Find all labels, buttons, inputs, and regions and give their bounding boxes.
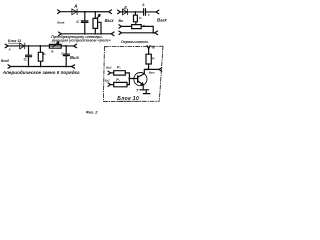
svg-text:С: С <box>76 19 79 24</box>
svg-text:Вых: Вых <box>157 18 167 23</box>
svg-text:С: С <box>148 13 150 17</box>
svg-text:Вход: Вход <box>1 59 9 63</box>
input arrow Вх1 <box>108 71 111 74</box>
wire row1 to merge bend <box>141 26 153 32</box>
svg-text:Д: Д <box>123 5 127 9</box>
svg-text:Апериодическое звено II порядк: Апериодическое звено II порядка <box>2 70 80 75</box>
svg-text:А: А <box>8 47 11 51</box>
output arrow of merge <box>155 31 158 35</box>
tap wire from П to bottom rail <box>98 22 101 34</box>
svg-text:Фиг. 2: Фиг. 2 <box>86 110 99 115</box>
wire to Р1 <box>111 72 114 74</box>
capacitor C <box>81 12 88 34</box>
svg-text:рующим устройством «реле»: рующим устройством «реле» <box>51 39 111 43</box>
output wire <box>149 68 159 70</box>
transistor Т circle <box>134 73 147 86</box>
underline of Блок 13 <box>8 42 20 44</box>
output terminal arrow <box>159 68 162 71</box>
node after diode <box>135 11 137 13</box>
node base <box>128 78 130 80</box>
resistor Р1 vertical <box>134 12 138 25</box>
node: resistor top junction <box>94 11 96 13</box>
resistor Р3 <box>146 54 151 69</box>
input terminal arrow (Вх) <box>118 10 121 14</box>
underline of Блок 10 <box>117 100 141 102</box>
output terminal arrow <box>156 10 159 14</box>
potentiometer П1 wiper arrow <box>53 42 59 47</box>
base wire <box>129 78 137 80</box>
wire diode to series capacitor <box>127 11 143 13</box>
svg-text:Вых: Вых <box>149 71 155 75</box>
dashed box border <box>103 46 163 101</box>
svg-text:Р₃: Р₃ <box>152 56 156 60</box>
svg-text:Т: Т <box>136 88 139 92</box>
bottom rail output arrow <box>72 65 75 68</box>
bottom rail input arrow <box>8 65 11 68</box>
bottom rail output arrow <box>111 32 114 36</box>
node C2 top <box>65 45 67 47</box>
capacitor С2 <box>63 46 69 67</box>
bottom rail input arrow <box>59 32 62 36</box>
svg-text:Вых: Вых <box>70 55 80 60</box>
svg-text:Р₁: Р₁ <box>139 16 142 20</box>
svg-text:Вх2: Вх2 <box>105 79 110 83</box>
capacitor С1 <box>26 46 32 67</box>
wire input to diode D <box>60 11 77 13</box>
node Р2 bottom <box>40 66 42 68</box>
svg-text:Блок 13: Блок 13 <box>8 39 21 43</box>
node C1 bottom <box>28 66 30 68</box>
wire diode to output <box>77 11 109 13</box>
diode D <box>72 9 77 15</box>
diode Д <box>122 9 127 15</box>
bottom rail wire <box>11 66 72 68</box>
input arrow row 2 <box>119 31 122 34</box>
wire capacitor to output <box>146 11 156 13</box>
svg-text:Д: Д <box>74 4 78 8</box>
wire row2 <box>122 32 155 34</box>
svg-text:Вх: Вх <box>118 19 124 23</box>
+E supply arrow <box>147 46 150 55</box>
svg-text:С₁: С₁ <box>24 58 29 62</box>
potentiometer П1 box <box>49 44 61 48</box>
output terminal arrow (Вых) <box>109 10 112 14</box>
bottom rail wire <box>61 33 111 35</box>
wire Р1 to base node <box>125 73 129 79</box>
svg-text:Д₁: Д₁ <box>141 3 145 6</box>
svg-text:П₁: П₁ <box>51 50 54 54</box>
collector node wire <box>145 68 149 70</box>
svg-text:Вых: Вых <box>105 18 115 23</box>
emitter wire down <box>142 85 144 90</box>
input arrow Вх2 <box>108 83 111 86</box>
wire diode to output <box>25 45 74 47</box>
node C2 bottom <box>65 66 67 68</box>
wiper arrow of П <box>97 15 100 19</box>
wire Р2 to base node <box>127 79 129 85</box>
variable resistor П (vertical box with arrow) <box>93 12 98 34</box>
resistor Р2 vertical <box>38 46 43 67</box>
node: resistor bottom junction <box>95 33 97 35</box>
svg-text:Вх1: Вх1 <box>106 66 112 70</box>
input terminal arrow (Вход) <box>58 10 61 14</box>
node collector <box>146 68 148 70</box>
transistor emitter with arrow <box>138 81 144 85</box>
node merge <box>152 32 154 34</box>
wire row1 to resistor Р2 <box>122 25 132 27</box>
series capacitor plates <box>144 9 146 16</box>
svg-text:Р₁: Р₁ <box>117 66 121 70</box>
node: tap on rail <box>100 33 102 35</box>
svg-text:Вход: Вход <box>57 20 64 24</box>
node: cap C bottom junction <box>84 33 86 35</box>
node: cap C top junction <box>84 11 86 13</box>
transistor base bar <box>137 76 139 82</box>
transistor collector <box>138 69 145 77</box>
ground <box>140 90 150 94</box>
wire input to diode <box>120 11 127 13</box>
svg-text:Р₂: Р₂ <box>43 52 46 56</box>
resistor Р2 horizontal box <box>132 25 142 29</box>
output terminal arrow <box>74 44 77 48</box>
svg-text:С₂: С₂ <box>61 52 64 56</box>
node Р2 top <box>40 45 42 47</box>
resistor Р2 horizontal <box>114 82 127 86</box>
resistor Р1 horizontal <box>114 71 126 75</box>
input terminal arrow <box>5 44 8 48</box>
input arrow row 1 <box>119 25 122 28</box>
svg-text:Р₂: Р₂ <box>116 78 120 82</box>
svg-text:Ограничитель: Ограничитель <box>121 40 148 44</box>
wire to Р2 <box>111 84 114 86</box>
diode <box>20 43 25 49</box>
wire input to diode <box>8 45 25 47</box>
node C1 top <box>28 45 30 47</box>
